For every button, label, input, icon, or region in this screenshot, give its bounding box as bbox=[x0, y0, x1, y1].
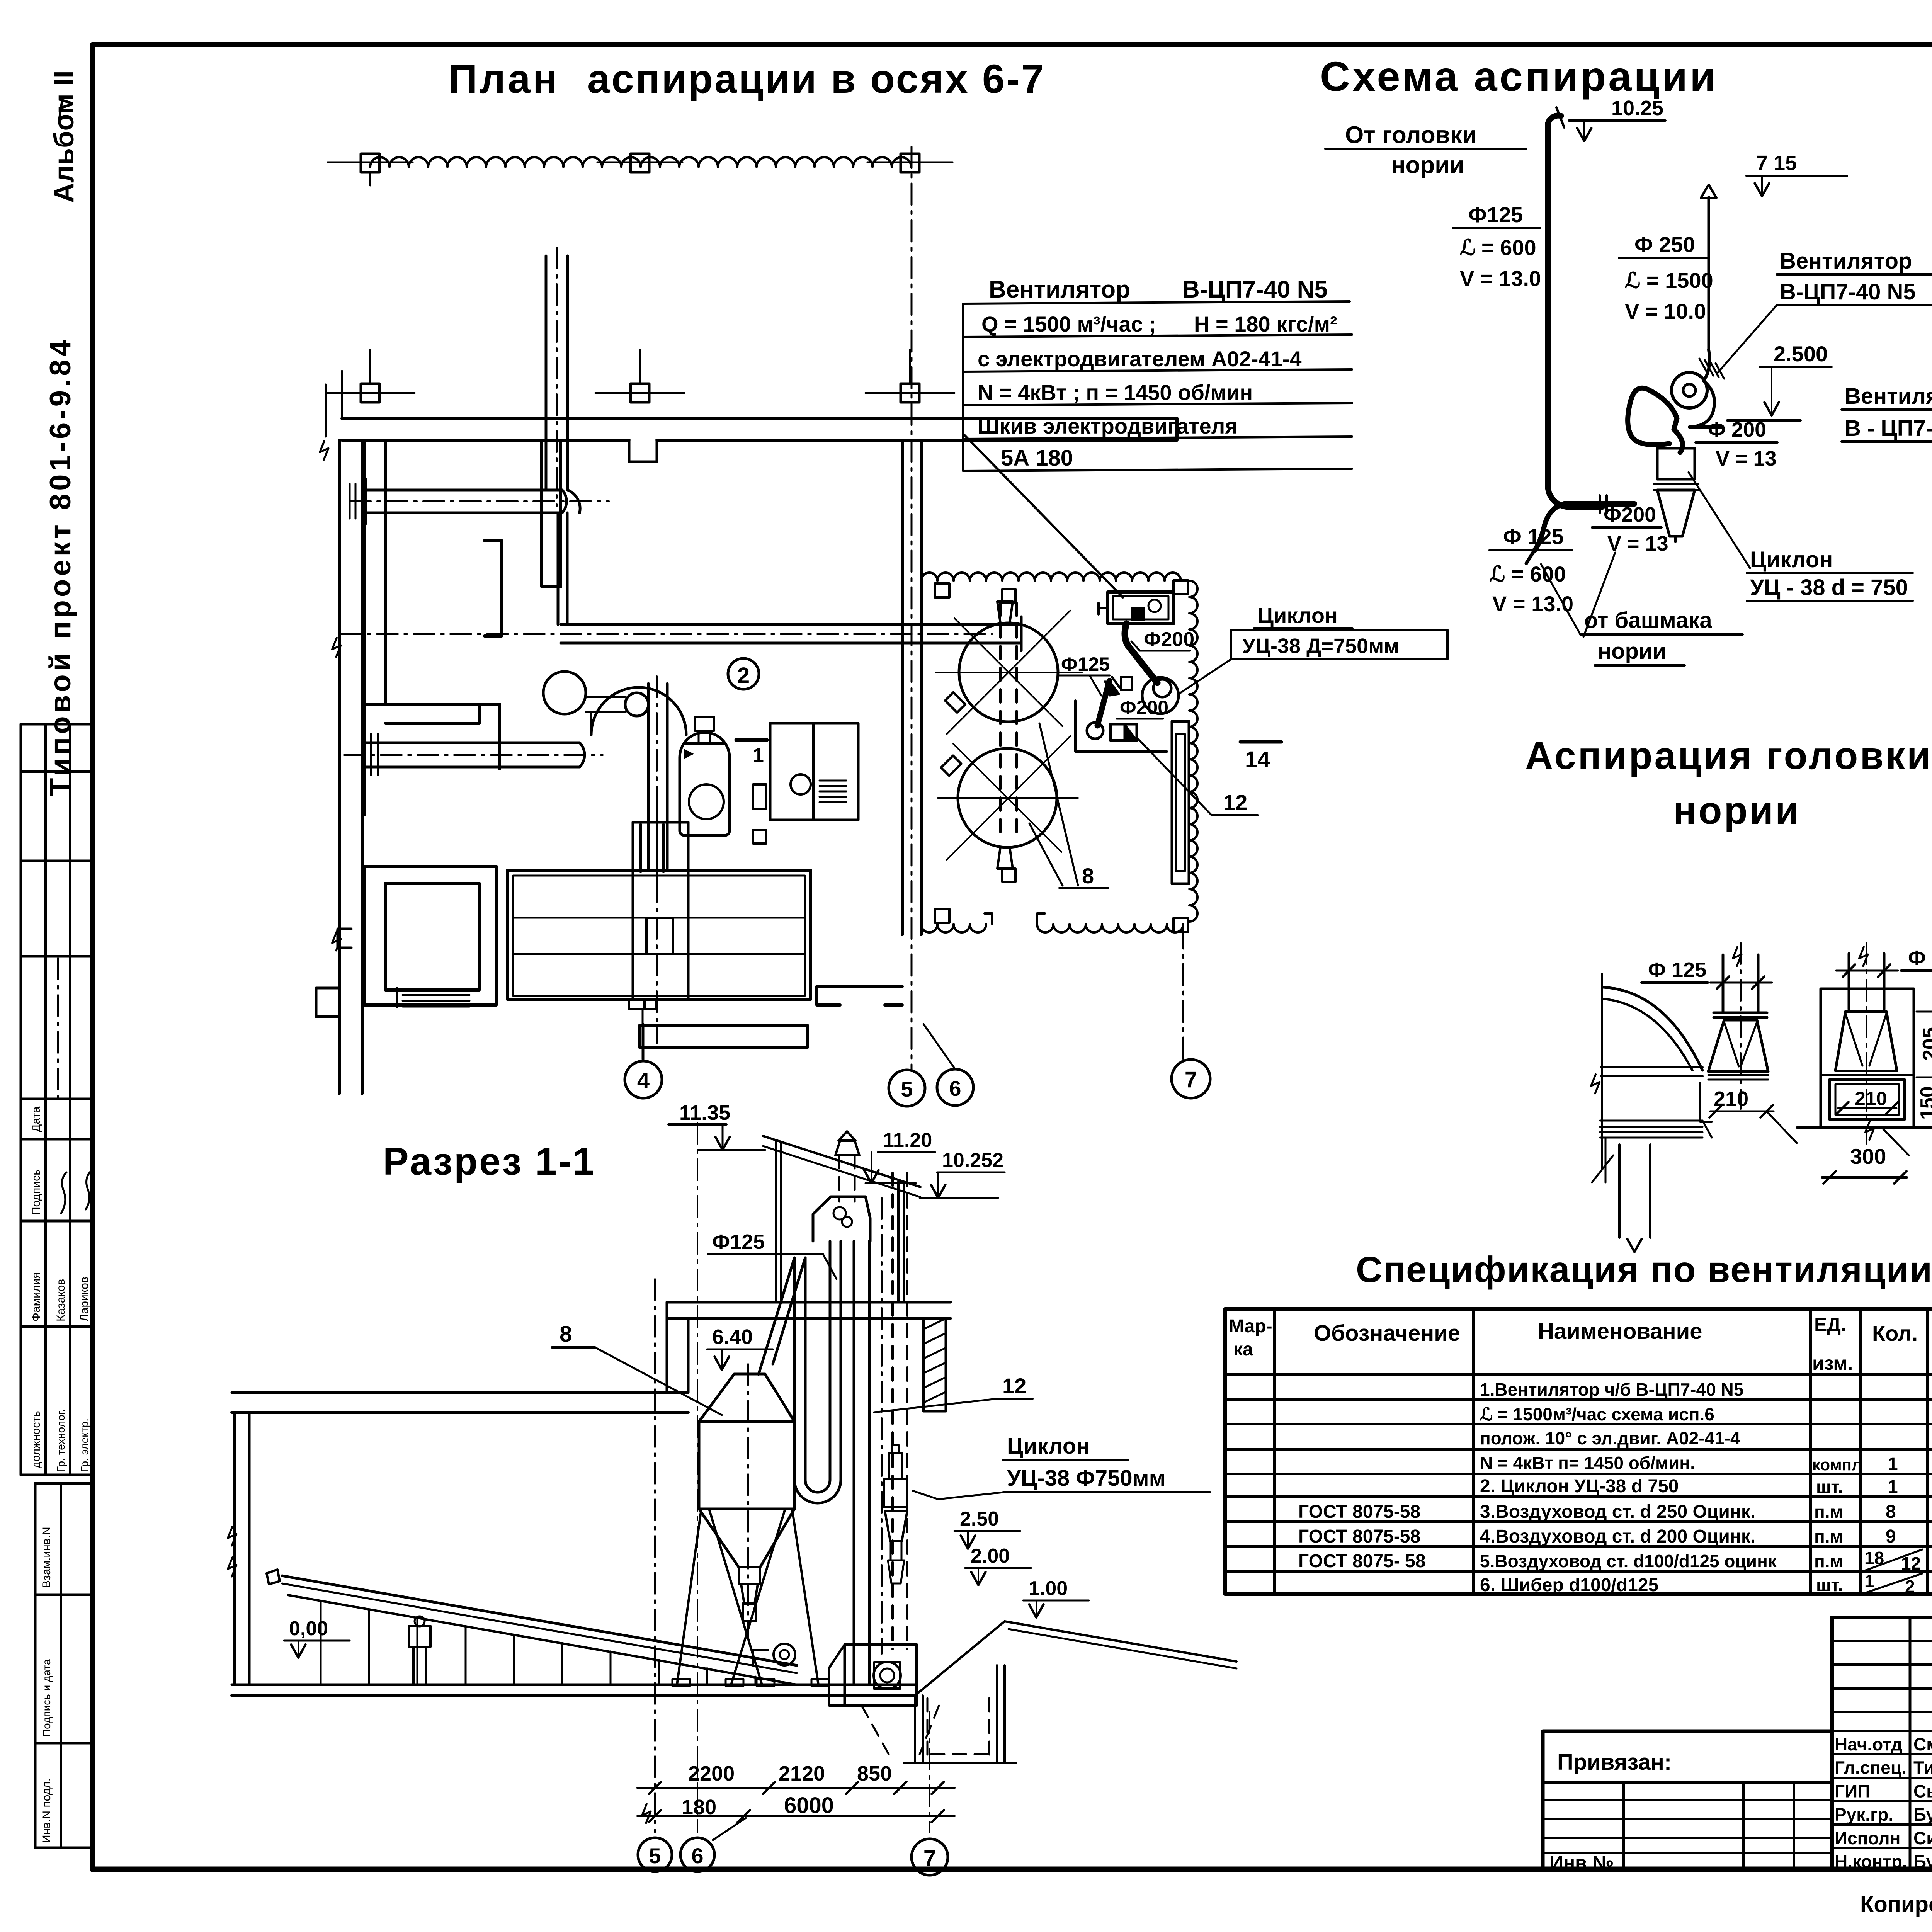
privyazan table bbox=[1543, 1731, 1832, 1870]
r1-1: small cyclone stack bbox=[884, 1479, 907, 1507]
plan: vertical duct down to machine bbox=[647, 684, 650, 868]
svg-text:7 15: 7 15 bbox=[1756, 151, 1797, 175]
svg-text:180: 180 bbox=[682, 1796, 716, 1819]
svg-text:компл: компл bbox=[1812, 1456, 1862, 1474]
schema: intake funnel bbox=[1628, 388, 1683, 452]
plan: lower duct run bbox=[365, 742, 580, 744]
svg-text:11.20: 11.20 bbox=[883, 1129, 932, 1151]
svg-text:Копировал: Копировал bbox=[1860, 1892, 1932, 1917]
svg-text:ГИП: ГИП bbox=[1835, 1781, 1870, 1801]
sheet border frame bbox=[93, 42, 1932, 47]
svg-text:Вентилятор: Вентилятор bbox=[1845, 384, 1932, 409]
svg-text:Вентилятор: Вентилятор bbox=[989, 276, 1130, 303]
svg-text:5А 180: 5А 180 bbox=[1001, 446, 1073, 471]
svg-text:Инв.№: Инв.№ bbox=[1549, 1852, 1614, 1874]
svg-text:300: 300 bbox=[1850, 1144, 1886, 1168]
svg-text:п.м: п.м bbox=[1814, 1526, 1843, 1546]
svg-text:▶: ▶ bbox=[684, 746, 694, 760]
svg-text:6000: 6000 bbox=[784, 1793, 834, 1818]
svg-text:1: 1 bbox=[1864, 1571, 1874, 1591]
plan: arc housing over duct bbox=[591, 687, 686, 735]
svg-text:Фамилия: Фамилия bbox=[30, 1272, 43, 1321]
plan: machinery cluster center bbox=[543, 672, 586, 714]
svg-text:210: 210 bbox=[1855, 1088, 1887, 1109]
svg-text:Подпись: Подпись bbox=[30, 1169, 43, 1215]
svg-text:ℒ = 1500м³/час схема исп.6: ℒ = 1500м³/час схема исп.6 bbox=[1480, 1404, 1714, 1424]
svg-text:Спецификация по вентиляции АС-: Спецификация по вентиляции АС-1 bbox=[1356, 1249, 1932, 1290]
plan: stair lines bbox=[403, 988, 469, 990]
svg-text:изм.: изм. bbox=[1812, 1352, 1853, 1374]
svg-text:Ф 125: Ф 125 bbox=[1648, 958, 1706, 981]
plan: duct elbow cap bbox=[568, 490, 580, 513]
svg-text:9: 9 bbox=[1886, 1526, 1896, 1547]
svg-text:ка: ка bbox=[1233, 1339, 1253, 1360]
svg-text:Мар-: Мар- bbox=[1229, 1316, 1272, 1337]
svg-text:Н = 180 кгс/м²: Н = 180 кгс/м² bbox=[1194, 312, 1337, 336]
svg-text:1.00: 1.00 bbox=[1029, 1577, 1068, 1600]
plan: machine block B bbox=[770, 723, 858, 820]
svg-text:аспирации в осях 6-7: аспирации в осях 6-7 bbox=[587, 56, 1046, 102]
svg-text:ℒ = 600: ℒ = 600 bbox=[1460, 235, 1536, 260]
svg-text:В - ЦП7- 40 N5: В - ЦП7- 40 N5 bbox=[1845, 416, 1932, 441]
plan: cyclone bin circle 1 (item 8) bbox=[959, 623, 1058, 722]
svg-text:V = 13: V = 13 bbox=[1607, 532, 1668, 555]
svg-text:ℒ = 1500: ℒ = 1500 bbox=[1625, 268, 1713, 293]
plan: bottom exterior wall segments bbox=[640, 1024, 807, 1027]
svg-text:Вентилятор: Вентилятор bbox=[1780, 248, 1912, 274]
plan: section mark 1 bbox=[736, 738, 767, 742]
r1-1: roof posts bbox=[775, 1141, 777, 1302]
schema: main F125 riser (thick) bbox=[1548, 116, 1602, 507]
svg-text:Ф125: Ф125 bbox=[1061, 653, 1110, 675]
svg-text:Q = 1500 м³/час ;: Q = 1500 м³/час ; bbox=[981, 312, 1156, 336]
svg-text:2200: 2200 bbox=[688, 1762, 735, 1785]
plan: wall door notch bbox=[629, 440, 657, 462]
svg-text:Альбом II: Альбом II bbox=[49, 70, 80, 203]
schema: F250 riser thin with arrow bbox=[1708, 197, 1710, 350]
svg-text:4.Воздуховод ст. d 200 Оцин: 4.Воздуховод ст. d 200 Оцинк. bbox=[1480, 1526, 1755, 1547]
schema: bottom elbow duct bbox=[1564, 501, 1634, 507]
plan: room corner squares bbox=[935, 583, 949, 597]
svg-text:850: 850 bbox=[857, 1762, 892, 1785]
svg-text:шт.: шт. bbox=[1816, 1575, 1843, 1595]
svg-text:12: 12 bbox=[1002, 1374, 1026, 1398]
svg-text:N = 4кВт ; п = 1450 об/мин: N = 4кВт ; п = 1450 об/мин bbox=[978, 380, 1253, 405]
svg-text:5: 5 bbox=[901, 1077, 913, 1101]
svg-text:8: 8 bbox=[1082, 864, 1094, 888]
r1-1: noria head cap bbox=[835, 1141, 859, 1155]
plan: axis dash-dot verticals bbox=[911, 147, 913, 1070]
svg-text:Смирнов: Смирнов bbox=[1913, 1734, 1932, 1754]
plan: axis bubble 2 bbox=[728, 658, 759, 689]
svg-text:ГОСТ 8075-58: ГОСТ 8075-58 bbox=[1298, 1526, 1420, 1547]
plan: shiber box item 12 bbox=[1111, 724, 1137, 740]
r1-1: noria trunk bbox=[853, 1241, 855, 1685]
svg-text:N = 4кВт п= 1450 об/мин.: N = 4кВт п= 1450 об/мин. bbox=[1480, 1453, 1695, 1473]
svg-text:205: 205 bbox=[1919, 1027, 1932, 1061]
left stamp table bbox=[21, 723, 93, 726]
detail: left suction hood view bbox=[1601, 974, 1603, 1169]
r1-1: ceiling slab left bbox=[232, 1391, 688, 1394]
title block signature columns bbox=[1909, 1617, 1912, 1869]
detail-left: hood trapezoid bbox=[1708, 1020, 1768, 1071]
plan: vertical duct from wall bbox=[557, 513, 560, 624]
svg-text:7: 7 bbox=[923, 1846, 936, 1871]
svg-text:Ф200: Ф200 bbox=[1120, 697, 1168, 718]
main title block frame bbox=[1832, 1617, 1932, 1869]
svg-text:12: 12 bbox=[1223, 790, 1247, 815]
svg-text:от башмака: от башмака bbox=[1584, 608, 1712, 633]
svg-text:Ф125: Ф125 bbox=[1468, 202, 1523, 227]
svg-text:10.25: 10.25 bbox=[1611, 97, 1663, 120]
svg-text:УЦ - 38 d = 750: УЦ - 38 d = 750 bbox=[1750, 575, 1908, 600]
svg-text:Подпись и дата: Подпись и дата bbox=[41, 1659, 53, 1737]
svg-text:Тихвинский: Тихвинский bbox=[1913, 1758, 1932, 1778]
schema: cyclone bbox=[1657, 448, 1695, 479]
plan: small parts below machines bbox=[753, 784, 766, 809]
r1-1: axis lines bottom bbox=[654, 1279, 656, 1832]
schema: fan scroll bbox=[1672, 372, 1707, 408]
svg-text:нории: нории bbox=[1673, 789, 1801, 832]
svg-text:6: 6 bbox=[949, 1076, 961, 1100]
svg-text:7: 7 bbox=[1185, 1067, 1197, 1092]
svg-text:V = 10.0: V = 10.0 bbox=[1625, 299, 1706, 323]
svg-text:Наименование: Наименование bbox=[1538, 1319, 1702, 1344]
svg-text:2. Циклон УЦ-38 d 750: 2. Циклон УЦ-38 d 750 bbox=[1480, 1476, 1679, 1497]
svg-text:V = 13.0: V = 13.0 bbox=[1492, 592, 1573, 616]
svg-text:Взам.инв.N: Взам.инв.N bbox=[40, 1527, 53, 1588]
svg-text:полож. 10° с эл.двиг. А02-41-: полож. 10° с эл.двиг. А02-41-4 bbox=[1480, 1428, 1740, 1448]
svg-text:Гл.спец.: Гл.спец. bbox=[1835, 1758, 1906, 1778]
plan: flow arrow and fitting bbox=[1121, 677, 1132, 690]
svg-text:Гр. электр.: Гр. электр. bbox=[78, 1418, 90, 1472]
r1-1: cyclone legs bbox=[677, 1509, 701, 1685]
svg-text:Исполн: Исполн bbox=[1835, 1828, 1900, 1848]
svg-text:Ф 125: Ф 125 bbox=[1908, 946, 1932, 969]
svg-text:Нач.отд: Нач.отд bbox=[1835, 1734, 1902, 1754]
plan: left wall stubs bbox=[338, 929, 351, 948]
plan: bin room scalloped boundary bbox=[921, 573, 1181, 581]
plan: leader from fan spec box bbox=[963, 434, 1123, 597]
svg-text:Ф 125: Ф 125 bbox=[1503, 524, 1564, 549]
svg-text:Рук.гр.: Рук.гр. bbox=[1835, 1804, 1893, 1825]
svg-text:1.Вентилятор ч/б В-ЦП7-40 N5: 1.Вентилятор ч/б В-ЦП7-40 N5 bbox=[1480, 1379, 1743, 1400]
svg-text:Н.контр.: Н.контр. bbox=[1835, 1852, 1907, 1872]
svg-text:Обозначение: Обозначение bbox=[1314, 1321, 1460, 1346]
r1-1: floor slab bbox=[232, 1684, 915, 1686]
svg-text:8: 8 bbox=[560, 1321, 572, 1347]
svg-text:6.40: 6.40 bbox=[712, 1325, 753, 1349]
svg-text:Сыркин: Сыркин bbox=[1913, 1781, 1932, 1801]
r1-1: noria boot bbox=[845, 1645, 917, 1706]
svg-text:Ф 250: Ф 250 bbox=[1634, 232, 1695, 257]
r1-1: axis bubbles 5 6 7 bbox=[638, 1838, 672, 1872]
svg-text:3.Воздуховод ст. d 250 Оцинк: 3.Воздуховод ст. d 250 Оцинк. bbox=[1480, 1502, 1755, 1522]
plan: cyclone bin circle 2 (item 8) bbox=[958, 748, 1057, 847]
svg-text:ГОСТ 8075- 58: ГОСТ 8075- 58 bbox=[1298, 1551, 1426, 1571]
r1-1: noria head body bbox=[813, 1197, 870, 1241]
plan: horizontal duct to bin room bbox=[561, 623, 1021, 626]
svg-text:В-ЦП7-40 N5: В-ЦП7-40 N5 bbox=[1780, 279, 1916, 304]
svg-text:150: 150 bbox=[1917, 1086, 1932, 1120]
plan: F200 elbow fan to cyclone bbox=[1125, 624, 1157, 683]
svg-text:5.Воздуховод ст. d100/d125 оци: 5.Воздуховод ст. d100/d125 оцинк bbox=[1480, 1551, 1777, 1571]
r1-1: roof slope bbox=[763, 1136, 920, 1187]
svg-text:должность: должность bbox=[30, 1411, 43, 1468]
svg-text:Разрез 1-1: Разрез 1-1 bbox=[383, 1140, 596, 1183]
plan: room lower-left bbox=[365, 865, 496, 868]
r1-1: big cyclone item 8 bbox=[699, 1374, 794, 1422]
svg-text:п.м: п.м bbox=[1814, 1502, 1843, 1522]
svg-text:Ф200: Ф200 bbox=[1144, 628, 1194, 651]
svg-text:Циклон: Циклон bbox=[1750, 547, 1833, 572]
svg-text:Кол.: Кол. bbox=[1872, 1321, 1918, 1345]
svg-text:Бущуева: Бущуева bbox=[1913, 1804, 1932, 1825]
svg-text:2.50: 2.50 bbox=[960, 1508, 999, 1530]
svg-text:нории: нории bbox=[1598, 639, 1666, 664]
svg-text:Ф125: Ф125 bbox=[712, 1230, 765, 1253]
svg-text:Инв.N подл.: Инв.N подл. bbox=[40, 1778, 53, 1843]
plan: middle axis column squares bbox=[361, 384, 379, 402]
svg-text:V = 13: V = 13 bbox=[1716, 447, 1777, 470]
svg-text:1: 1 bbox=[753, 744, 764, 767]
r1-1: left wall bbox=[233, 1412, 236, 1685]
plan: platform outline bbox=[1075, 701, 1167, 752]
svg-text:8: 8 bbox=[1886, 1502, 1896, 1522]
svg-text:ℒ = 600: ℒ = 600 bbox=[1490, 562, 1566, 586]
plan: machine block A with hopper bbox=[680, 757, 730, 835]
r1-1: inclined conveyor bbox=[282, 1576, 797, 1665]
svg-text:Циклон: Циклон bbox=[1258, 603, 1338, 628]
detail-left: pipe bbox=[1722, 955, 1725, 1012]
detail-right: hood bbox=[1835, 1012, 1897, 1071]
plan: vertical duct to wall bbox=[545, 256, 548, 490]
plan: big process machine bottom bbox=[507, 870, 811, 999]
r1-1: bottom dimensions bbox=[638, 1787, 954, 1789]
plan: F125 duct elbow bbox=[1097, 681, 1109, 726]
plan: cyclone in plan bbox=[1142, 677, 1179, 714]
svg-text:2.00: 2.00 bbox=[971, 1545, 1010, 1567]
svg-text:14: 14 bbox=[1245, 747, 1270, 772]
svg-text:0,00: 0,00 bbox=[289, 1617, 328, 1640]
detail-left: step and shelf bbox=[1700, 1083, 1712, 1122]
svg-text:Ф200: Ф200 bbox=[1604, 503, 1656, 526]
svg-text:5: 5 bbox=[649, 1844, 661, 1868]
plan: left exterior wall bbox=[338, 440, 341, 1094]
svg-text:1: 1 bbox=[1888, 1454, 1898, 1475]
svg-text:п.м: п.м bbox=[1814, 1551, 1843, 1571]
svg-text:В-ЦП7-40 N5: В-ЦП7-40 N5 bbox=[1182, 276, 1328, 303]
detail-right: pipe bbox=[1848, 954, 1850, 1009]
svg-text:Казаков: Казаков bbox=[54, 1279, 67, 1321]
r1-1: U-pipe item 12 bbox=[793, 1258, 796, 1480]
svg-text:6. Шибер d100/d125: 6. Шибер d100/d125 bbox=[1480, 1575, 1658, 1595]
plan: main horizontal wall bbox=[342, 417, 1177, 420]
svg-text:4: 4 bbox=[637, 1068, 650, 1093]
plan: internal wall on axis 5-6 bbox=[901, 440, 904, 935]
svg-text:11.35: 11.35 bbox=[679, 1101, 730, 1124]
svg-text:2: 2 bbox=[737, 663, 750, 688]
plan: fan unit (V-CP7-40) in plan bbox=[1108, 592, 1173, 624]
r1-1: conveyor mid stand bbox=[409, 1626, 430, 1647]
plan: right wall pilaster niche bbox=[1172, 721, 1189, 884]
svg-text:План: План bbox=[448, 56, 560, 102]
detail-left: support below bbox=[1618, 1145, 1621, 1238]
svg-text:2120: 2120 bbox=[779, 1762, 825, 1785]
svg-text:Шкив электродвигателя: Шкив электродвигателя bbox=[978, 414, 1238, 438]
svg-text:УЦ-38 Ф750мм: УЦ-38 Ф750мм bbox=[1007, 1466, 1165, 1491]
svg-text:Сидорова: Сидорова bbox=[1913, 1828, 1932, 1848]
r1-1: hatched pier bbox=[923, 1318, 946, 1411]
svg-text:1: 1 bbox=[1888, 1477, 1898, 1497]
plan: axis bubbles 4 5 6 7 bbox=[625, 1061, 662, 1098]
detail-right: slot box with 210 bbox=[1830, 1080, 1905, 1119]
svg-text:Циклон: Циклон bbox=[1007, 1434, 1090, 1459]
svg-text:Схема аспирации: Схема аспирации bbox=[1320, 53, 1718, 100]
svg-text:2.500: 2.500 bbox=[1774, 342, 1828, 366]
svg-text:Бущуева: Бущуева bbox=[1913, 1852, 1932, 1872]
svg-text:нории: нории bbox=[1391, 152, 1464, 179]
svg-text:От головки: От головки bbox=[1345, 122, 1477, 148]
svg-text:Аспирация головки: Аспирация головки bbox=[1525, 734, 1932, 777]
plan: room upper-left bbox=[363, 440, 366, 815]
svg-text:V = 13.0: V = 13.0 bbox=[1460, 266, 1541, 291]
svg-text:ГОСТ 8075-58: ГОСТ 8075-58 bbox=[1298, 1502, 1420, 1522]
left stamp lower section bbox=[35, 1483, 93, 1848]
svg-text:шт.: шт. bbox=[1816, 1477, 1843, 1497]
svg-text:Дата: Дата bbox=[30, 1106, 43, 1132]
plan: axis column squares on roof line bbox=[361, 154, 379, 172]
svg-text:ЕД.: ЕД. bbox=[1814, 1314, 1846, 1335]
spec table grid bbox=[1225, 1309, 1932, 1594]
svg-text:Гр. технолог.: Гр. технолог. bbox=[55, 1409, 67, 1472]
svg-text:УЦ-38 Д=750мм: УЦ-38 Д=750мм bbox=[1242, 634, 1399, 658]
svg-text:Лариков: Лариков bbox=[78, 1277, 91, 1321]
plan: horizontal duct run bbox=[366, 489, 562, 492]
svg-text:10.252: 10.252 bbox=[942, 1149, 1003, 1172]
r1-1: grade line right bbox=[1005, 1621, 1236, 1662]
detail-left: collar bbox=[1714, 1012, 1767, 1014]
r1-1: pit bbox=[914, 1696, 916, 1763]
svg-text:6: 6 bbox=[691, 1844, 703, 1868]
svg-text:с электродвигателем А02-41-4: с электродвигателем А02-41-4 bbox=[978, 347, 1301, 371]
svg-text:Привязан:: Привязан: bbox=[1557, 1750, 1672, 1775]
svg-text:Типовой проект 801-6-9.84: Типовой проект 801-6-9.84 bbox=[44, 337, 77, 796]
r1-1: upper deck slab bbox=[667, 1301, 951, 1304]
svg-text:Ф 200: Ф 200 bbox=[1708, 418, 1766, 441]
plan: scalloped roof edge line bbox=[370, 157, 911, 167]
